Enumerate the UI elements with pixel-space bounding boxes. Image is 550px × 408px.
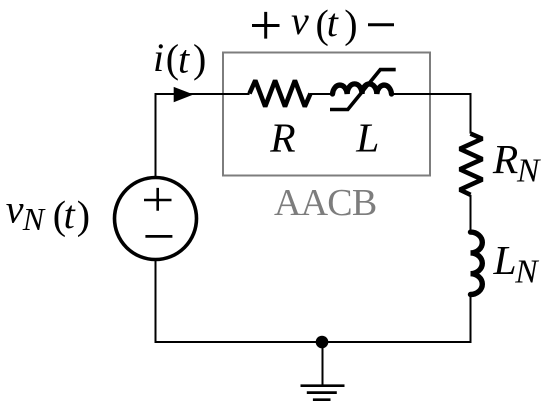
svg-text:L: L <box>493 237 517 283</box>
svg-text:): ) <box>77 193 90 238</box>
svg-text:R: R <box>492 136 518 182</box>
svg-text:R: R <box>269 114 295 160</box>
svg-text:AACB: AACB <box>274 182 376 224</box>
svg-text:N: N <box>22 201 46 237</box>
svg-text:N: N <box>514 254 539 291</box>
svg-text:t: t <box>178 36 190 81</box>
svg-text:L: L <box>355 114 379 160</box>
svg-text:v: v <box>291 0 309 43</box>
svg-text:): ) <box>193 36 206 81</box>
svg-text:v: v <box>6 187 24 232</box>
svg-text:t: t <box>64 192 76 237</box>
svg-text:N: N <box>516 153 541 190</box>
svg-text:t: t <box>327 0 339 45</box>
svg-text:i: i <box>153 35 164 80</box>
svg-text:): ) <box>344 1 357 46</box>
